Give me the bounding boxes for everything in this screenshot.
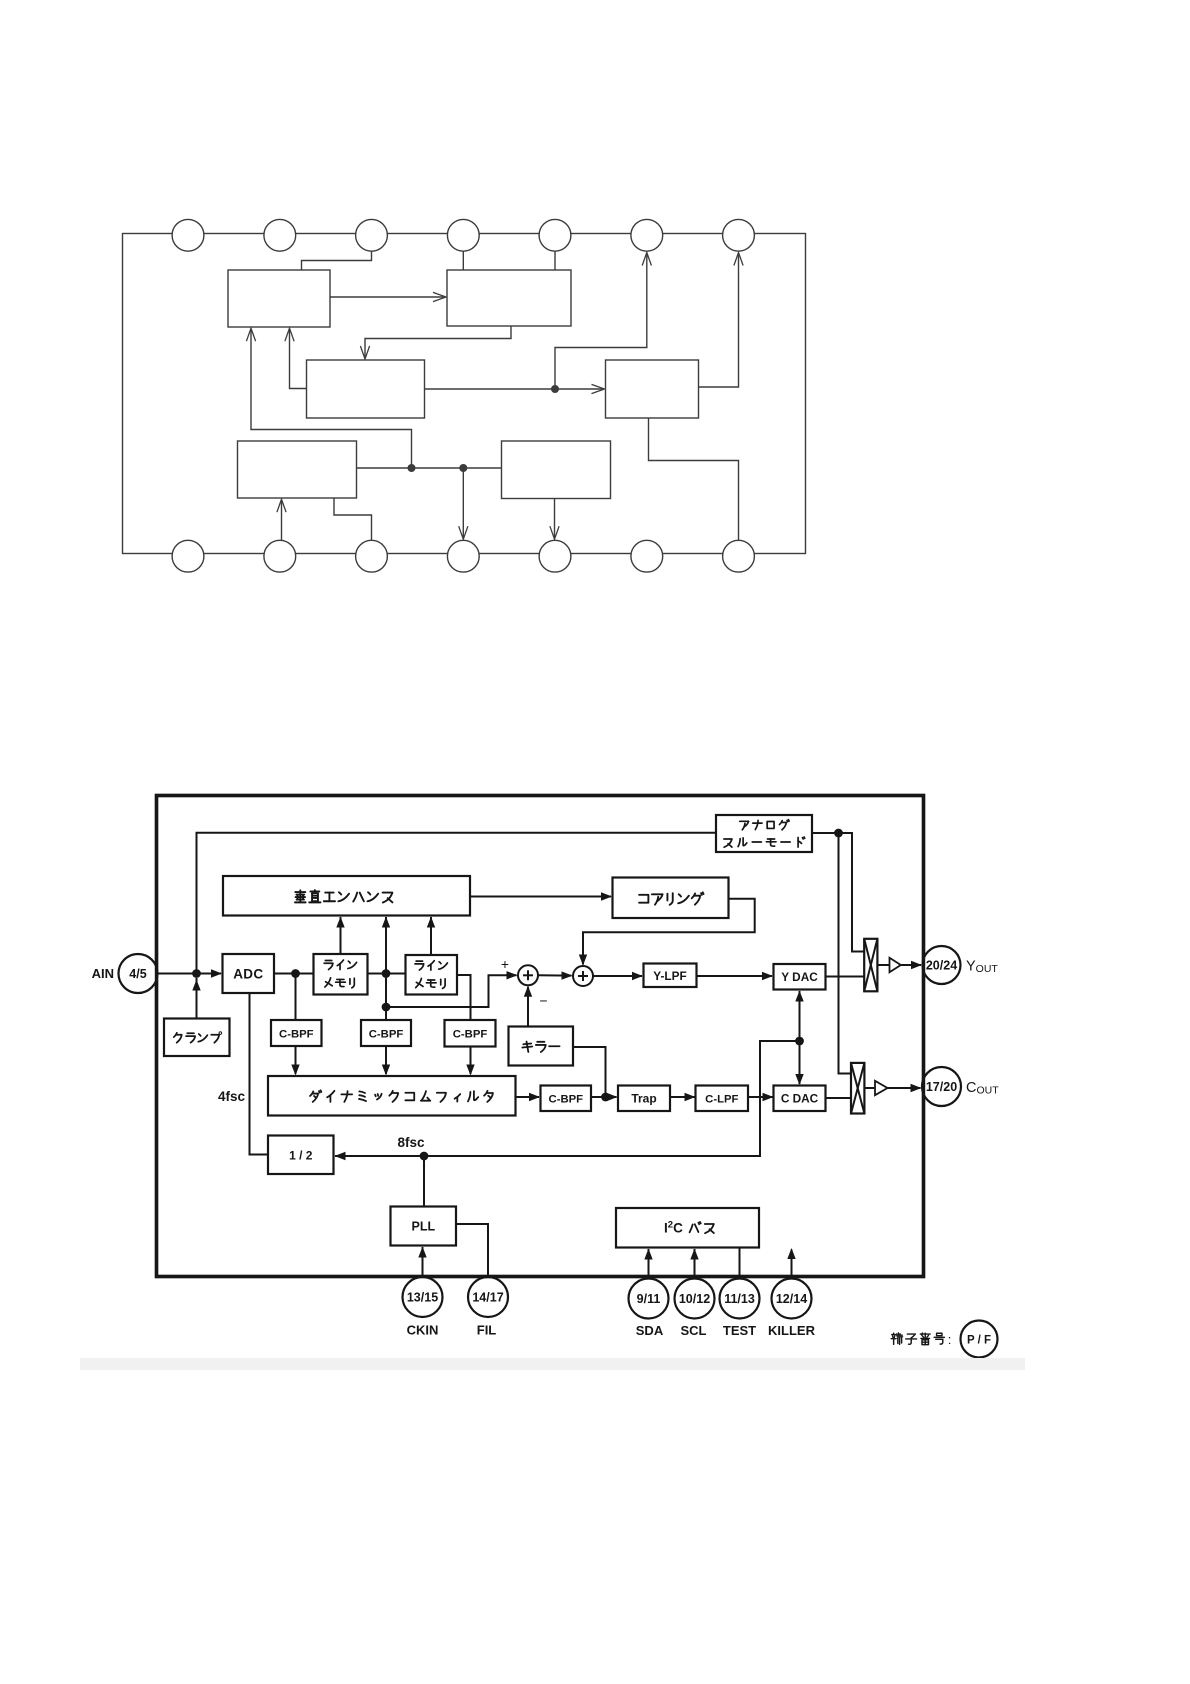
wire: 8fsc junction down to PLL (423, 1156, 425, 1207)
block: C-BPF 3 (445, 1020, 496, 1047)
top pin 2 (264, 219, 296, 251)
svg-text:CKIN: CKIN (407, 1323, 439, 1338)
svg-text:C-BPF: C-BPF (549, 1094, 584, 1106)
wire: killer to adder 1 minus input (527, 987, 529, 1027)
wire: junction down through C-BPF2 to comb filter (385, 974, 387, 1021)
wire: block B bottom to block C top (365, 326, 511, 358)
svg-text:C-LPF: C-LPF (705, 1094, 738, 1106)
junction at AIN line (192, 969, 201, 978)
C output switch (851, 1063, 864, 1114)
svg-text:14/17: 14/17 (472, 1290, 503, 1304)
pin SDA 9/11 (629, 1279, 669, 1319)
block: clamp (164, 1019, 230, 1057)
wire: C switch to COUT pin (865, 1087, 876, 1089)
svg-text:−: − (539, 993, 547, 1009)
wire: TEST pin to I2C bus (739, 1248, 741, 1279)
wire: pin3 to block A top (302, 251, 372, 270)
block: C-BPF 4 (541, 1086, 592, 1112)
wire: junction up to vertical enhance (385, 917, 387, 974)
wire: line memory 1 top to vertical enhance (340, 917, 342, 954)
wire: block C to block D with junction (425, 388, 605, 390)
top diagram: IC pin/block connection diagram (123, 219, 806, 572)
pin FIL 14/17 (468, 1277, 508, 1317)
C output buffer (875, 1081, 888, 1095)
bottom diagram: video decoder IC block diagram (92, 796, 1000, 1358)
wire: block E bottom to bottom pin3 (334, 498, 372, 541)
svg-text:17/20: 17/20 (926, 1080, 957, 1094)
wire: CKIN pin to PLL (422, 1247, 424, 1277)
block: dynamic comb filter (268, 1076, 516, 1116)
block A (228, 270, 330, 327)
block B (447, 270, 571, 326)
block: line memory 1 (314, 954, 368, 995)
wire: bypass from junction to adder 1 (386, 975, 517, 1007)
top pin 3 (356, 219, 388, 251)
top pin 7 (723, 219, 755, 251)
top pin 4 (447, 219, 479, 251)
svg-text:P / F: P / F (967, 1335, 991, 1347)
wire: clamp up to input junction (196, 978, 198, 1019)
bottom pin 3 (356, 540, 388, 572)
top pin 1 (172, 219, 204, 251)
svg-text:PLL: PLL (411, 1220, 435, 1234)
wire: junction down to bottom pin4 (462, 468, 464, 539)
svg-text:Y DAC: Y DAC (781, 970, 818, 984)
svg-text:SDA: SDA (636, 1323, 664, 1338)
svg-text:11/13: 11/13 (724, 1292, 755, 1306)
wire: AIN to ADC (158, 973, 222, 975)
svg-text:FIL: FIL (477, 1323, 497, 1338)
wire: Y DAC / C DAC clock link (799, 991, 801, 1084)
adder 2 (573, 966, 593, 986)
wire: analog-through output branches (812, 833, 864, 952)
pin TEST 11/13 (720, 1279, 760, 1319)
bottom pin 7 (723, 540, 755, 572)
svg-text:9/11: 9/11 (637, 1292, 661, 1306)
bottom pin 2 (264, 540, 296, 572)
wire: Y DAC to Y output switch (826, 976, 865, 978)
wire: C DAC to C output switch (826, 1097, 852, 1099)
block C (307, 360, 425, 418)
wire: ADC bottom to divider (4fsc) (250, 993, 269, 1155)
wire: line memory 2 to C-BPF3 to comb filter (457, 975, 471, 1020)
wire: Trap to C-LPF (670, 1096, 695, 1098)
adder 1 (518, 965, 538, 985)
wire: killer output to chroma junction (573, 1047, 606, 1097)
wire: adder 1 to adder 2 (538, 974, 572, 976)
wire: bottom pin2 to block E bottom (281, 500, 283, 541)
pin KILLER 12/14 (772, 1279, 812, 1319)
wire: pin5 to block B top (554, 251, 556, 270)
wire: block C left to block A bottom (290, 329, 307, 389)
svg-text:+: + (501, 956, 509, 972)
block E (238, 441, 357, 498)
svg-text:10/12: 10/12 (679, 1292, 710, 1306)
top pin 5 (539, 219, 571, 251)
svg-text:Y-LPF: Y-LPF (653, 969, 686, 983)
wire: block D bottom to bottom pin7 (649, 418, 739, 541)
bottom pin 5 (539, 540, 571, 572)
block: Trap (618, 1086, 670, 1112)
wire: C-BPF4 to Trap with junction (591, 1096, 617, 1098)
outer frame (123, 234, 806, 554)
wire: comb filter to C-BPF4 (516, 1096, 540, 1098)
svg-text:TEST: TEST (723, 1323, 756, 1338)
svg-text:12/14: 12/14 (776, 1292, 807, 1306)
wire: ADC to line memory 1 with junction (274, 973, 314, 975)
Y output buffer (890, 958, 901, 972)
block: C-BPF 1 (271, 1020, 322, 1046)
wire: block D right to pin7 (699, 253, 739, 387)
pin P/F legend circle (961, 1321, 998, 1358)
svg-text:8fsc: 8fsc (397, 1135, 425, 1150)
terminal number legend (891, 1333, 944, 1345)
svg-text:ADC: ADC (233, 967, 263, 982)
bottom pin 4 (447, 540, 479, 572)
block: analog through mode (716, 815, 812, 852)
block: killer (509, 1027, 574, 1066)
wire: PLL to FIL pin (456, 1224, 488, 1277)
wire: input junction up to analog-through line (197, 833, 717, 974)
wire: Y-LPF to Y DAC (697, 975, 773, 977)
block: coring (613, 878, 729, 919)
wire: Y switch to YOUT pin (878, 964, 890, 966)
chip border overstroke (157, 796, 924, 1277)
block: ADC (223, 954, 275, 993)
block: line memory 2 (406, 955, 458, 995)
wire: junction to block A bottom (251, 329, 412, 468)
block: Y DAC (774, 964, 826, 990)
svg-text:C-BPF: C-BPF (453, 1029, 488, 1041)
pin YOUT 20/24 (923, 946, 961, 984)
wire: C-LPF to C DAC (748, 1096, 773, 1098)
wire: line memory 1 to line memory 2 with junction (368, 973, 406, 975)
block D (606, 360, 699, 418)
pin AIN 4/5 (119, 954, 158, 993)
svg-text:SCL: SCL (681, 1323, 707, 1338)
block: C-BPF 2 (361, 1020, 411, 1046)
svg-text:1 / 2: 1 / 2 (289, 1149, 313, 1163)
svg-text:C DAC: C DAC (781, 1092, 819, 1106)
wire: line memory 2 top to vertical enhance (430, 917, 432, 955)
svg-text:13/15: 13/15 (407, 1290, 438, 1304)
svg-text:C-BPF: C-BPF (369, 1028, 404, 1040)
svg-text:C-BPF: C-BPF (279, 1028, 314, 1040)
wire: adder 2 to Y-LPF (593, 975, 642, 977)
Y output switch (864, 939, 877, 992)
svg-text:Trap: Trap (631, 1092, 656, 1106)
block: PLL (391, 1207, 457, 1246)
wire: KILLER pin arrow (791, 1250, 793, 1279)
wire: junction down through C-BPF1 to comb filter (295, 974, 297, 1021)
block: vertical enhance (223, 876, 470, 916)
block: I2C bus (616, 1208, 759, 1248)
bottom pin 1 (172, 540, 204, 572)
wire: SCL pin to I2C bus (694, 1249, 696, 1279)
block F (502, 441, 611, 499)
wire: block A to block B (330, 296, 445, 298)
wire: block E to block F with junctions (357, 467, 502, 469)
svg-text:I2C: I2C (664, 1220, 683, 1236)
top pin 6 (631, 219, 663, 251)
wire: pin4 to block B top (462, 251, 464, 270)
svg-text:4fsc: 4fsc (218, 1089, 246, 1104)
wire: SDA pin to I2C bus (648, 1249, 650, 1279)
pin COUT 17/20 (922, 1067, 961, 1106)
svg-text:4/5: 4/5 (129, 967, 146, 981)
block: Y-LPF (644, 964, 697, 988)
pin CKIN 13/15 (403, 1277, 443, 1317)
wire: block F bottom to bottom pin5 (554, 499, 556, 539)
wire: junction up to pin6 (555, 253, 647, 389)
svg-text:KILLER: KILLER (768, 1323, 816, 1338)
chip outer border (157, 796, 924, 1277)
block: C DAC (774, 1086, 826, 1112)
block: 1/2 divider (268, 1136, 334, 1175)
wire: 8fsc line to divider (335, 1041, 800, 1156)
wire: vertical enhance to coring (470, 896, 611, 898)
svg-text::: : (948, 1332, 952, 1347)
bottom pin 6 (631, 540, 663, 572)
svg-text:20/24: 20/24 (926, 958, 957, 972)
wire: coring feedback to adder 2 (583, 899, 755, 965)
faint scan band (80, 1358, 1025, 1370)
pin SCL 10/12 (675, 1279, 715, 1319)
svg-text:AIN: AIN (92, 966, 114, 981)
block: C-LPF (696, 1086, 749, 1112)
